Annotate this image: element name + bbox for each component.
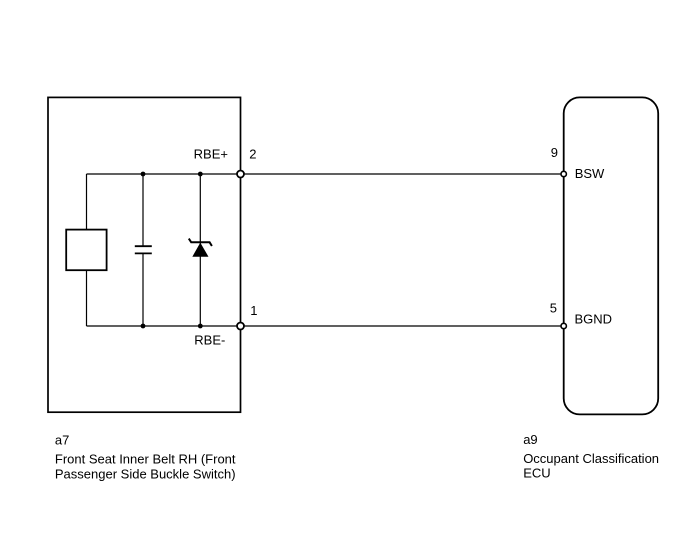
junction dot: diode branch on bottom rail	[198, 324, 203, 329]
pin 1 terminal on a7	[237, 323, 244, 330]
junction dot: capacitor branch on bottom rail	[141, 324, 146, 329]
label RBE+ (pin 2 signal name)	[194, 147, 228, 162]
svg-text:Occupant Classification: Occupant Classification	[523, 451, 659, 466]
ECU box a9 (Occupant Classification ECU)	[564, 97, 659, 414]
wire: capacitor top lead	[142, 174, 144, 246]
wire: top rail RBE+ net from switch branch to pin 2 and on to ECU pin 9	[87, 173, 564, 175]
wire: zener diode branch vertical lead	[199, 174, 201, 326]
svg-text:BSW: BSW	[575, 166, 605, 181]
capacitor plates	[135, 246, 152, 253]
junction dot: capacitor branch on top rail	[141, 172, 146, 177]
pin 5 terminal on a9	[561, 323, 566, 328]
component name a7 line 1	[55, 452, 236, 467]
wire: bottom rail RBE- net from switch branch to pin 1 and on to ECU pin 5	[87, 325, 564, 327]
svg-text:BGND: BGND	[575, 312, 613, 327]
svg-text:RBE+: RBE+	[194, 147, 228, 162]
reference designator a9	[523, 432, 537, 447]
svg-text:2: 2	[249, 147, 256, 162]
component box a7 (front seat inner belt buckle switch)	[48, 97, 241, 412]
zener diode (cathode bar with zener ticks)	[189, 239, 212, 246]
pin number 5	[550, 300, 557, 315]
svg-text:5: 5	[550, 300, 557, 315]
svg-text:RBE-: RBE-	[194, 332, 225, 347]
label RBE- (pin 1 signal name)	[194, 332, 225, 347]
pin number 9	[551, 145, 558, 160]
component name a7 line 2	[55, 467, 236, 482]
wire: capacitor bottom lead	[142, 253, 144, 326]
junction dot: diode branch on top rail	[198, 172, 203, 177]
svg-text:a7: a7	[55, 433, 69, 448]
label BGND (ECU pin 5 signal name)	[575, 312, 613, 327]
svg-text:ECU: ECU	[523, 466, 550, 481]
wire: vertical lead from top rail down to switch element	[86, 174, 88, 230]
zener diode triangle (anode, pointing up)	[193, 244, 207, 257]
svg-text:a9: a9	[523, 432, 537, 447]
component name a9 line 2	[523, 466, 550, 481]
pin 2 terminal on a7	[237, 171, 244, 178]
wire: vertical lead from switch element down to bottom rail	[86, 270, 88, 326]
pin number 1	[250, 303, 257, 318]
pin 9 terminal on a9	[561, 171, 566, 176]
component name a9 line 1	[523, 451, 659, 466]
switch element (buckle switch contact box)	[66, 230, 106, 271]
label BSW (ECU pin 9 signal name)	[575, 166, 605, 181]
svg-text:9: 9	[551, 145, 558, 160]
reference designator a7	[55, 433, 69, 448]
svg-text:Front Seat Inner Belt RH (Fron: Front Seat Inner Belt RH (Front	[55, 452, 236, 467]
pin number 2	[249, 147, 256, 162]
svg-text:1: 1	[250, 303, 257, 318]
svg-text:Passenger Side Buckle Switch): Passenger Side Buckle Switch)	[55, 467, 236, 482]
